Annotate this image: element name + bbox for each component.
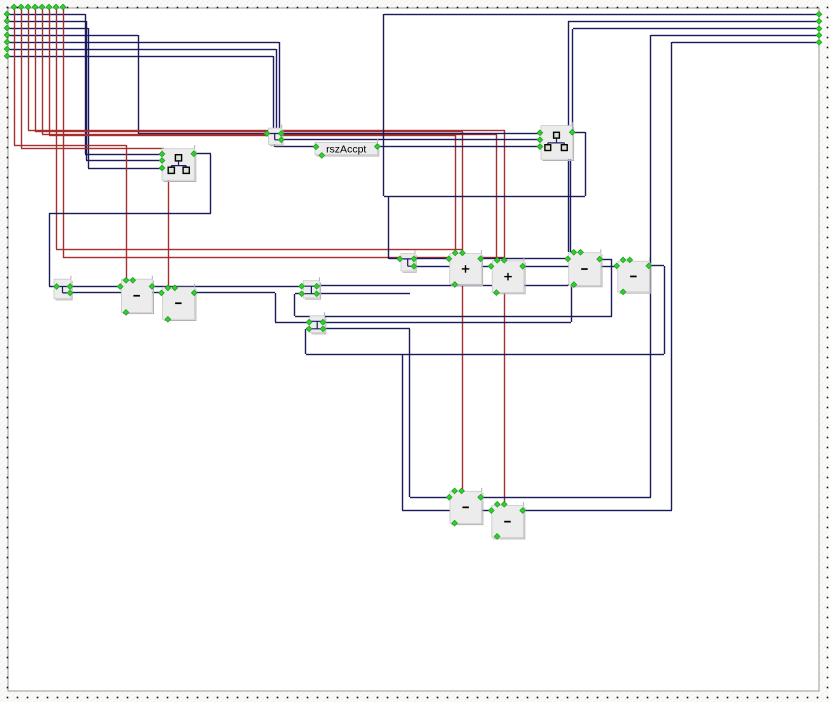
svg-text:rszAccpt: rszAccpt	[326, 144, 366, 156]
